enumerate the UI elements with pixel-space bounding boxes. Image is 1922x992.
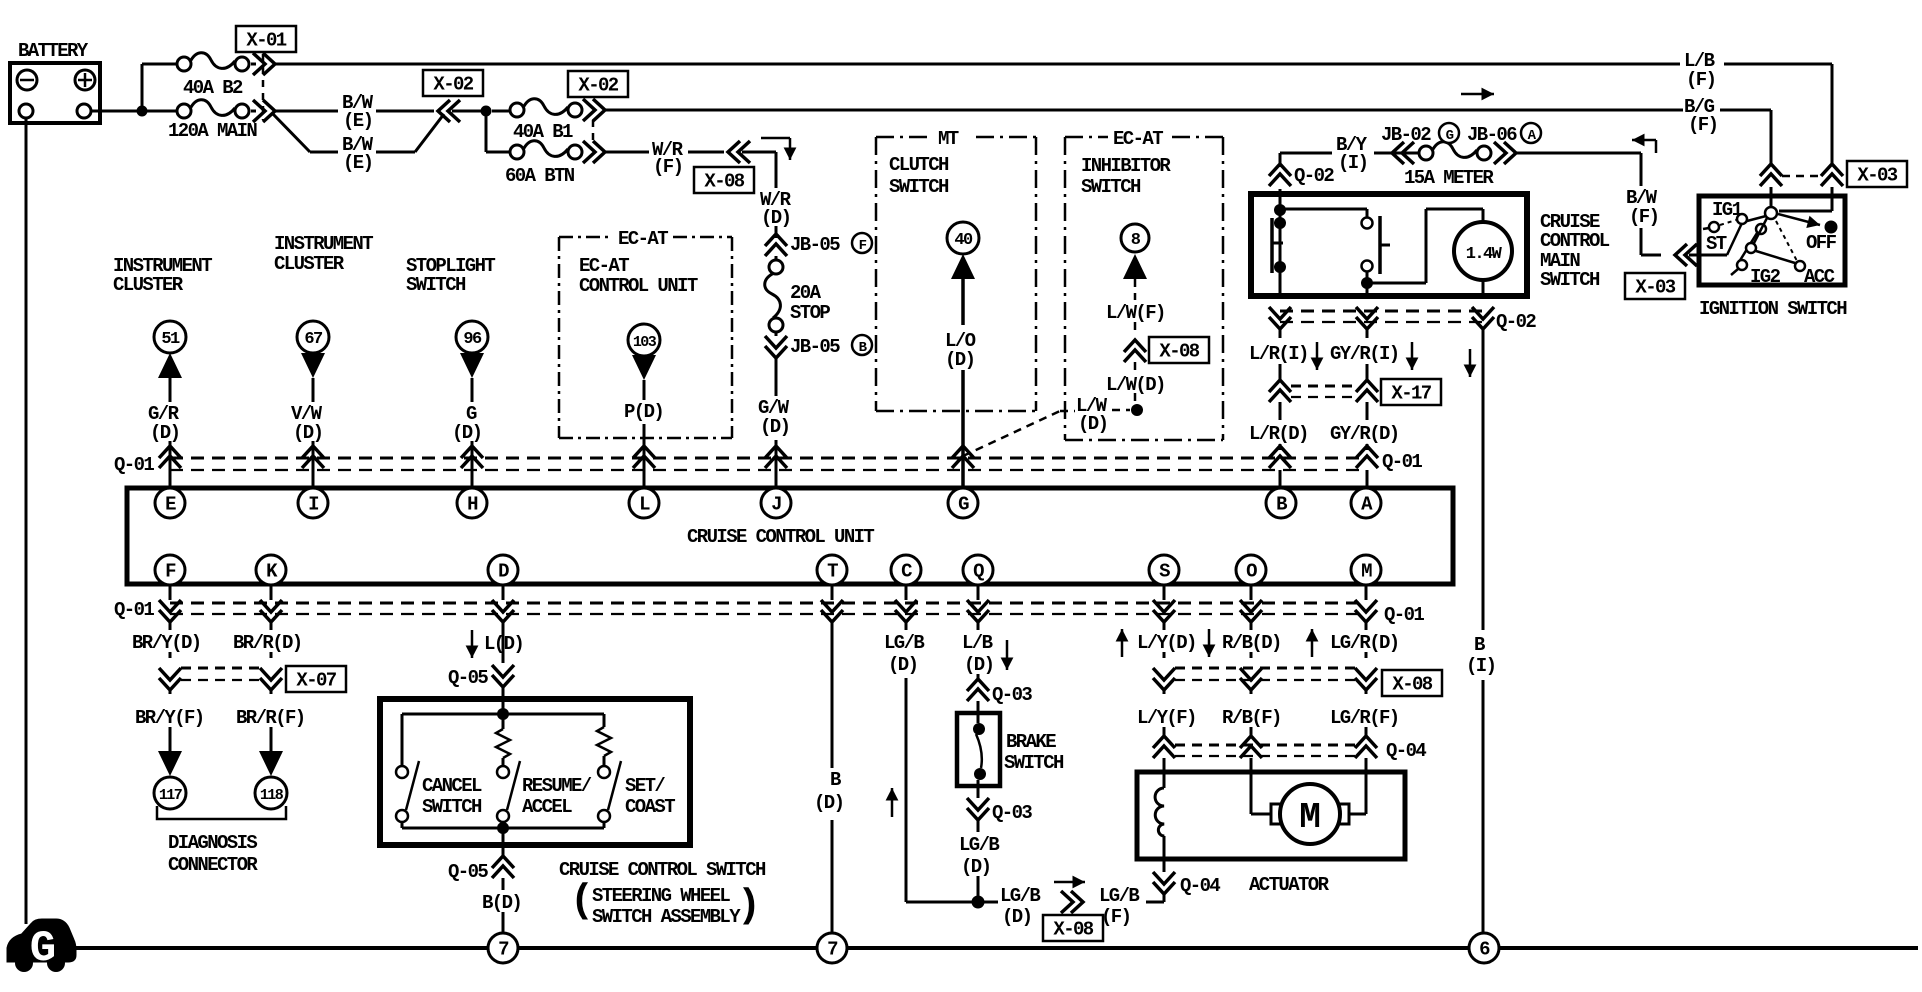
svg-text:CLUSTER: CLUSTER bbox=[113, 274, 184, 296]
set resistor bbox=[603, 714, 606, 727]
flow arrow down 3 bbox=[1469, 349, 1472, 377]
svg-text:M: M bbox=[1361, 561, 1372, 583]
flow arrow down 2 bbox=[1411, 342, 1414, 370]
flow arrow L/B down bbox=[1006, 640, 1009, 670]
set switch bbox=[598, 766, 610, 778]
wire out of brake switch bbox=[977, 780, 980, 798]
connector X-08 label inhibitor bbox=[1149, 337, 1209, 363]
connector Q-01 chevron x1367 bbox=[1356, 446, 1378, 468]
svg-text:L/W(D): L/W(D) bbox=[1106, 374, 1165, 396]
svg-text:118: 118 bbox=[260, 787, 284, 804]
node ground 6 bbox=[1469, 933, 1499, 963]
connector X-08 chevron LG/B bbox=[1061, 891, 1083, 913]
svg-text:6: 6 bbox=[1479, 939, 1490, 961]
terminal I bbox=[298, 488, 328, 518]
svg-text:(D): (D) bbox=[1078, 413, 1107, 435]
node ground 7 (cruise switch) bbox=[488, 933, 518, 963]
connector X-17 label bbox=[1381, 379, 1441, 405]
svg-text:BATTERY: BATTERY bbox=[18, 40, 89, 62]
wire B/G corner down bbox=[1770, 110, 1773, 165]
svg-text:SWITCH: SWITCH bbox=[1540, 269, 1600, 291]
terminal arrow 96 bbox=[460, 353, 484, 378]
svg-text:LG/B: LG/B bbox=[959, 834, 999, 856]
svg-text:(F): (F) bbox=[1686, 69, 1715, 91]
wire B(D) bbox=[502, 878, 505, 890]
terminal O bbox=[1236, 555, 1266, 585]
svg-text:COAST: COAST bbox=[625, 796, 675, 818]
svg-text:(D): (D) bbox=[814, 792, 843, 814]
flow arrow down 1 bbox=[1316, 342, 1319, 370]
ground bus wire bbox=[74, 946, 1918, 950]
svg-text:X-07: X-07 bbox=[296, 670, 336, 692]
connector X-02 chevron upper bbox=[438, 100, 460, 122]
svg-text:1.4W: 1.4W bbox=[1466, 245, 1503, 264]
wire L/B corner down bbox=[1831, 64, 1834, 165]
svg-text:51: 51 bbox=[161, 330, 180, 349]
wire L/W(F) dashed bbox=[1134, 279, 1137, 300]
fuse 120A MAIN bbox=[147, 110, 177, 113]
svg-text:ACCEL: ACCEL bbox=[522, 796, 572, 818]
svg-text:BR/Y(D): BR/Y(D) bbox=[132, 632, 201, 654]
node ground 7 (unit T) bbox=[817, 933, 847, 963]
node 8 bbox=[1121, 224, 1149, 252]
wire L(D) bbox=[502, 622, 505, 663]
ignition contact ST bbox=[1709, 222, 1719, 232]
ignition contact IG2 bbox=[1746, 243, 1756, 253]
svg-text:Q-01: Q-01 bbox=[114, 454, 154, 476]
wire out of cruise switch bbox=[502, 828, 505, 856]
svg-text:CONTROL UNIT: CONTROL UNIT bbox=[579, 275, 698, 297]
svg-text:Q-04: Q-04 bbox=[1180, 875, 1220, 897]
actuator motor M bbox=[1271, 804, 1283, 824]
push switch contacts bbox=[1362, 218, 1373, 229]
cruise control main switch box bbox=[1251, 194, 1527, 296]
brake switch box bbox=[957, 713, 1000, 786]
terminal K bbox=[256, 555, 286, 585]
EC-AT control unit box bbox=[559, 236, 608, 239]
svg-text:BR/R(F): BR/R(F) bbox=[236, 707, 305, 729]
svg-text:X-08: X-08 bbox=[1159, 341, 1199, 363]
terminal arrow 51 bbox=[158, 353, 182, 378]
flow arrow W/R down bbox=[761, 137, 790, 140]
wire P(D) lower bbox=[643, 424, 646, 489]
wire L/W dashed to dot bbox=[1134, 393, 1137, 405]
svg-text:J: J bbox=[771, 494, 781, 516]
relay contact dots bbox=[1274, 204, 1286, 216]
MT clutch switch box bbox=[876, 136, 930, 139]
terminal J bbox=[761, 488, 791, 518]
svg-text:SWITCH ASSEMBLY: SWITCH ASSEMBLY bbox=[592, 906, 741, 928]
svg-text:60A BTN: 60A BTN bbox=[505, 165, 575, 187]
wire LG/B below brake bbox=[977, 820, 980, 832]
wire LG/R from M bbox=[1365, 622, 1368, 630]
svg-text:LG/B: LG/B bbox=[1000, 885, 1040, 907]
svg-text:7: 7 bbox=[827, 939, 838, 961]
svg-text:40A B2: 40A B2 bbox=[183, 77, 243, 99]
relay pole wire bbox=[1279, 196, 1282, 296]
svg-text:7: 7 bbox=[498, 939, 509, 961]
flow arrow B/W bbox=[1655, 140, 1658, 153]
svg-text:OFF: OFF bbox=[1806, 232, 1837, 254]
svg-text:T: T bbox=[827, 561, 838, 583]
wire B(D) unit T bbox=[831, 622, 834, 768]
connector X-08 chevron inhibitor bbox=[1124, 340, 1146, 362]
wire main switch pole up bbox=[1279, 153, 1282, 167]
wire junction up to 40A B2 fuse bbox=[141, 64, 144, 111]
svg-text:O: O bbox=[1246, 561, 1257, 583]
svg-text:Q-01: Q-01 bbox=[114, 599, 154, 621]
node 117 bbox=[154, 777, 186, 809]
connector Q-04 chevrons bus bbox=[1163, 690, 1166, 694]
svg-text:Q: Q bbox=[973, 561, 984, 583]
svg-text:8: 8 bbox=[1131, 231, 1141, 250]
svg-text:STEERING WHEEL: STEERING WHEEL bbox=[592, 885, 730, 907]
wire A terminal feed bbox=[1366, 470, 1369, 489]
svg-text:F: F bbox=[165, 561, 176, 583]
svg-text:EC-AT: EC-AT bbox=[618, 228, 668, 250]
resume resistor bbox=[502, 714, 505, 729]
connector X-02 label upper bbox=[423, 70, 483, 96]
wire LG/B from C bbox=[905, 622, 908, 630]
connector X-03 label B/W bbox=[1625, 273, 1685, 299]
svg-text:Q-05: Q-05 bbox=[448, 667, 488, 689]
terminal E bbox=[155, 488, 185, 518]
connector JB-05 B chevron bbox=[775, 332, 778, 336]
connector X-01 label bbox=[236, 26, 296, 52]
bus Q-01 bottom dashed bbox=[170, 602, 1366, 605]
svg-text:X-08: X-08 bbox=[704, 171, 744, 193]
wire M mid bbox=[1365, 652, 1368, 658]
wire L/B feed line1 bbox=[275, 63, 1680, 66]
svg-text:X-17: X-17 bbox=[1391, 383, 1431, 405]
svg-text:Q-03: Q-03 bbox=[992, 802, 1032, 824]
wire L/Y into actuator bbox=[1163, 758, 1166, 788]
fuse 40A B2 bbox=[177, 57, 191, 71]
svg-text:CLUTCH: CLUTCH bbox=[889, 154, 949, 176]
flow arrow on B/G line bbox=[1461, 93, 1494, 96]
svg-text:(E): (E) bbox=[343, 110, 372, 132]
wire B/W exit ignition bbox=[1727, 223, 1742, 255]
node 40 bbox=[947, 222, 979, 254]
flow arrow S up bbox=[1121, 629, 1124, 657]
flow arrow C up bbox=[891, 788, 894, 817]
connector Q-01 chevron x644 bbox=[633, 446, 655, 468]
connector Q-01 chevron x1280 bbox=[1269, 446, 1291, 468]
svg-text:L: L bbox=[639, 494, 650, 516]
svg-text:Q-01: Q-01 bbox=[1382, 451, 1422, 473]
EC-AT inhibitor switch box bbox=[1065, 136, 1108, 139]
wire LG/R into actuator bbox=[1365, 758, 1368, 814]
bus Q-02 dashed bbox=[1280, 310, 1483, 313]
fuse 15A METER bbox=[1386, 152, 1419, 155]
connector X-02 chevron line2 right bbox=[583, 99, 605, 121]
wire 60A BTN to W/R label bbox=[605, 151, 649, 154]
connector X-08 label LG/B bbox=[1043, 915, 1103, 941]
wire B terminal feed bbox=[1279, 470, 1282, 489]
svg-text:JB-06: JB-06 bbox=[1467, 124, 1517, 146]
wire BR/Y upper bbox=[169, 622, 172, 630]
connector X-01 dashed link bbox=[262, 54, 265, 120]
svg-text:H: H bbox=[467, 494, 478, 516]
wire BR/R mid bbox=[270, 652, 273, 658]
svg-text:BR/R(D): BR/R(D) bbox=[233, 632, 302, 654]
svg-text:P(D): P(D) bbox=[624, 401, 663, 423]
svg-text:SWITCH: SWITCH bbox=[406, 274, 466, 296]
connector Q-01 chevron x776 bbox=[765, 446, 787, 468]
connector Q-01 bottom chevron x1251 bbox=[1250, 585, 1253, 600]
svg-text:JB-05: JB-05 bbox=[790, 336, 840, 358]
wire R/B into actuator bbox=[1250, 758, 1253, 814]
wire G/W to terminal J bbox=[775, 440, 778, 489]
svg-text:IG2: IG2 bbox=[1750, 266, 1781, 288]
terminal A bbox=[1351, 488, 1381, 518]
node L/W junction bbox=[1131, 404, 1143, 416]
svg-text:G: G bbox=[30, 924, 55, 974]
wire BR/R to 118 bbox=[270, 690, 273, 694]
wire GY/R(D) bbox=[1366, 402, 1369, 420]
svg-text:F: F bbox=[859, 238, 867, 254]
svg-text:(F): (F) bbox=[653, 156, 682, 178]
resume switch bbox=[497, 766, 509, 778]
connector JB-05 F chevron bbox=[765, 234, 787, 256]
svg-text:E: E bbox=[165, 494, 176, 516]
flow arrow LG/B right bbox=[1054, 881, 1085, 884]
svg-text:L/R(D): L/R(D) bbox=[1249, 423, 1308, 445]
push switch bar bbox=[1378, 216, 1382, 274]
terminal G bbox=[948, 488, 978, 518]
wire junction down to 60A BTN bbox=[485, 111, 488, 152]
terminal F bbox=[155, 555, 185, 585]
actuator box bbox=[1137, 772, 1405, 859]
connector X-07 label bbox=[286, 666, 346, 692]
terminal arrow 118 bbox=[259, 751, 283, 776]
svg-text:CONNECTOR: CONNECTOR bbox=[168, 854, 258, 876]
brake switch contacts bbox=[973, 723, 985, 735]
svg-text:(D): (D) bbox=[452, 422, 481, 444]
svg-text:Q-02: Q-02 bbox=[1294, 165, 1334, 187]
connector X-08 chevron W/R bbox=[728, 141, 750, 163]
svg-text:X-02: X-02 bbox=[433, 74, 473, 96]
ignition OFF arrow bbox=[1778, 214, 1820, 225]
connector X-08 label bottom bus bbox=[1382, 670, 1442, 696]
svg-text:Q-01: Q-01 bbox=[1384, 604, 1424, 626]
svg-text:117: 117 bbox=[159, 787, 182, 804]
terminal H bbox=[457, 488, 487, 518]
connector Q-01 bottom chevron x906 bbox=[905, 585, 908, 600]
wire L/W dashed low bbox=[1134, 362, 1137, 372]
svg-text:IGNITION SWITCH: IGNITION SWITCH bbox=[1699, 298, 1847, 320]
connector chevron right of meter fuse bbox=[1494, 142, 1516, 164]
svg-text:MT: MT bbox=[938, 128, 959, 150]
wire B/W corner up bbox=[1641, 254, 1661, 257]
svg-text:(F): (F) bbox=[1688, 114, 1717, 136]
connector X-03 chevron B/W bbox=[1675, 244, 1697, 266]
wire G/R lower bbox=[169, 441, 172, 489]
wire P(D) bbox=[643, 380, 646, 400]
svg-text:IG1: IG1 bbox=[1712, 199, 1743, 221]
battery bbox=[10, 63, 100, 123]
svg-text:(F): (F) bbox=[1101, 906, 1130, 928]
connector Q-01 bottom chevron x1366 bbox=[1365, 585, 1368, 600]
wire L/W dashed mid bbox=[1134, 322, 1137, 334]
svg-text:INHIBITOR: INHIBITOR bbox=[1081, 155, 1171, 177]
svg-text:(D): (D) bbox=[761, 207, 790, 229]
wire to X-08 chevron bbox=[688, 151, 724, 154]
svg-text:SET/: SET/ bbox=[625, 775, 665, 797]
svg-text:EC-AT: EC-AT bbox=[1113, 128, 1163, 150]
ignition contact mid bbox=[1756, 224, 1766, 234]
cruise control unit box bbox=[127, 488, 1453, 584]
svg-text:DIAGNOSIS: DIAGNOSIS bbox=[168, 832, 257, 854]
ignition dashed ST-IG1 bbox=[1720, 220, 1736, 225]
connector Q-01 bottom chevron x832 bbox=[831, 585, 834, 600]
svg-text:LG/R(F): LG/R(F) bbox=[1330, 707, 1399, 729]
svg-text:X-03: X-03 bbox=[1635, 277, 1675, 299]
cruise control switch box bbox=[380, 699, 690, 845]
connector Q-01 bottom chevron x503 bbox=[502, 585, 505, 600]
wire B/Y segment bbox=[1280, 152, 1332, 155]
connector Q-02 chevrons lower bbox=[1269, 307, 1291, 329]
node 96 bbox=[456, 321, 488, 353]
svg-text:GY/R(I): GY/R(I) bbox=[1330, 343, 1399, 365]
bus Q-01 top dashed bbox=[170, 457, 1367, 460]
svg-text:40A B1: 40A B1 bbox=[513, 121, 573, 143]
wire LG/B to junction bbox=[977, 876, 980, 902]
wire S mid bbox=[1163, 652, 1166, 658]
connector Q-01 chevron x472 bbox=[461, 446, 483, 468]
node 51 bbox=[154, 321, 186, 353]
svg-text:L/Y(F): L/Y(F) bbox=[1137, 707, 1196, 729]
svg-text:X-08: X-08 bbox=[1053, 919, 1093, 941]
svg-text:(D): (D) bbox=[1002, 906, 1031, 928]
svg-text:ST: ST bbox=[1706, 233, 1727, 255]
svg-text:X-01: X-01 bbox=[246, 30, 286, 52]
node LG/B junction bbox=[972, 896, 985, 909]
wire L/O lower bbox=[961, 370, 965, 489]
terminal Q bbox=[963, 555, 993, 585]
connector X-02 label right bbox=[568, 71, 628, 97]
wire GY/R(I) bbox=[1366, 329, 1369, 338]
svg-text:STOP: STOP bbox=[790, 302, 830, 324]
wire W/R corner down bbox=[742, 151, 776, 154]
node 67 bbox=[297, 321, 329, 353]
svg-text:LG/B: LG/B bbox=[1099, 885, 1139, 907]
svg-text:Q-05: Q-05 bbox=[448, 861, 488, 883]
wire to ground 7 bbox=[502, 912, 505, 933]
connector Q-01 bottom chevron x271 bbox=[270, 585, 273, 600]
svg-text:20A: 20A bbox=[790, 282, 822, 304]
svg-text:(F): (F) bbox=[1629, 206, 1658, 228]
svg-text:(E): (E) bbox=[343, 152, 372, 174]
terminal arrow 103 bbox=[632, 355, 656, 380]
connector X-01 chevron line1 bbox=[253, 53, 275, 75]
terminal D bbox=[488, 555, 518, 585]
connector Q-03 chevron bottom bbox=[967, 798, 989, 820]
svg-text:LG/R(D): LG/R(D) bbox=[1330, 632, 1399, 654]
fuse 20A STOP bbox=[775, 256, 778, 262]
svg-text:LG/B: LG/B bbox=[884, 632, 924, 654]
flow arrow M up bbox=[1311, 629, 1314, 657]
svg-text:B: B bbox=[1474, 634, 1485, 656]
terminal M bbox=[1351, 555, 1381, 585]
svg-text:X-08: X-08 bbox=[1392, 674, 1432, 696]
svg-text:RESUME/: RESUME/ bbox=[522, 775, 592, 797]
ignition pivot contact bbox=[1765, 207, 1777, 219]
svg-text:(D): (D) bbox=[150, 422, 179, 444]
wire G/W down bbox=[775, 358, 778, 396]
svg-text:B(D): B(D) bbox=[482, 892, 521, 914]
connector X-01 chevron line2 bbox=[251, 110, 256, 113]
svg-text:R/B(F): R/B(F) bbox=[1222, 707, 1281, 729]
svg-text:L/W(F): L/W(F) bbox=[1106, 302, 1165, 324]
svg-text:D: D bbox=[498, 561, 509, 583]
svg-text:(I): (I) bbox=[1466, 655, 1495, 677]
flow arrow O down bbox=[1208, 629, 1211, 657]
fuse 40A B1 bbox=[492, 110, 510, 113]
svg-text:L/R(I): L/R(I) bbox=[1249, 343, 1308, 365]
ignition switch box bbox=[1699, 196, 1845, 285]
flow arrow L(D) bbox=[471, 630, 474, 658]
svg-text:EC-AT: EC-AT bbox=[579, 255, 629, 277]
svg-text:L/B: L/B bbox=[962, 632, 993, 654]
wire L/B from Q bbox=[977, 622, 980, 630]
connector Q-04 chevron single bbox=[1153, 872, 1175, 894]
svg-text:JB-05: JB-05 bbox=[790, 234, 840, 256]
svg-text:X-03: X-03 bbox=[1857, 165, 1897, 187]
wire V/W upper bbox=[312, 378, 315, 402]
terminal C bbox=[891, 555, 921, 585]
connector Q-01 chevron x963 bbox=[952, 446, 974, 468]
connector Q-01 bottom chevron x1164 bbox=[1163, 585, 1166, 600]
svg-text:L/Y(D): L/Y(D) bbox=[1137, 632, 1196, 654]
svg-text:CONTROL: CONTROL bbox=[1540, 230, 1610, 252]
connector Q-01 chevron x313 bbox=[302, 446, 324, 468]
svg-text:67: 67 bbox=[304, 330, 323, 349]
terminal B bbox=[1266, 488, 1296, 518]
terminal L bbox=[629, 488, 659, 518]
svg-text:Q-02: Q-02 bbox=[1496, 311, 1536, 333]
wire 15A meter to corner bbox=[1516, 152, 1641, 155]
svg-text:SWITCH: SWITCH bbox=[422, 796, 482, 818]
wire C down bbox=[905, 678, 908, 902]
svg-text:M: M bbox=[1299, 797, 1321, 838]
actuator coil bbox=[1155, 788, 1164, 836]
svg-text:(D): (D) bbox=[945, 349, 974, 371]
svg-text:B: B bbox=[830, 769, 841, 791]
svg-text:(D): (D) bbox=[293, 422, 322, 444]
wire battery positive to junction bbox=[91, 110, 137, 113]
connector X-08 chevrons bottom bus bbox=[1153, 668, 1175, 690]
node fuse junction bbox=[481, 106, 492, 117]
svg-text:): ) bbox=[737, 884, 761, 929]
relay contact bar bbox=[1270, 218, 1274, 273]
svg-text:Q-03: Q-03 bbox=[992, 684, 1032, 706]
wire lamp down bbox=[1482, 280, 1485, 296]
connector Q-05 chevron top bbox=[492, 665, 514, 687]
lamp 1.4W bbox=[1454, 222, 1512, 280]
connector Q-05 chevron bottom bbox=[492, 856, 514, 878]
svg-text:(D): (D) bbox=[888, 654, 917, 676]
svg-text:JB-02: JB-02 bbox=[1381, 124, 1431, 146]
node 103 bbox=[628, 324, 660, 356]
wire push switch down bbox=[1366, 272, 1369, 296]
wire C corner to junction bbox=[906, 901, 972, 904]
svg-text:B: B bbox=[1276, 494, 1287, 516]
wire W/R (F) bbox=[605, 109, 1683, 112]
wire BR/R upper bbox=[270, 622, 273, 630]
svg-text:(D): (D) bbox=[760, 416, 789, 438]
ignition dashed pivot-ACC bbox=[1776, 221, 1797, 261]
